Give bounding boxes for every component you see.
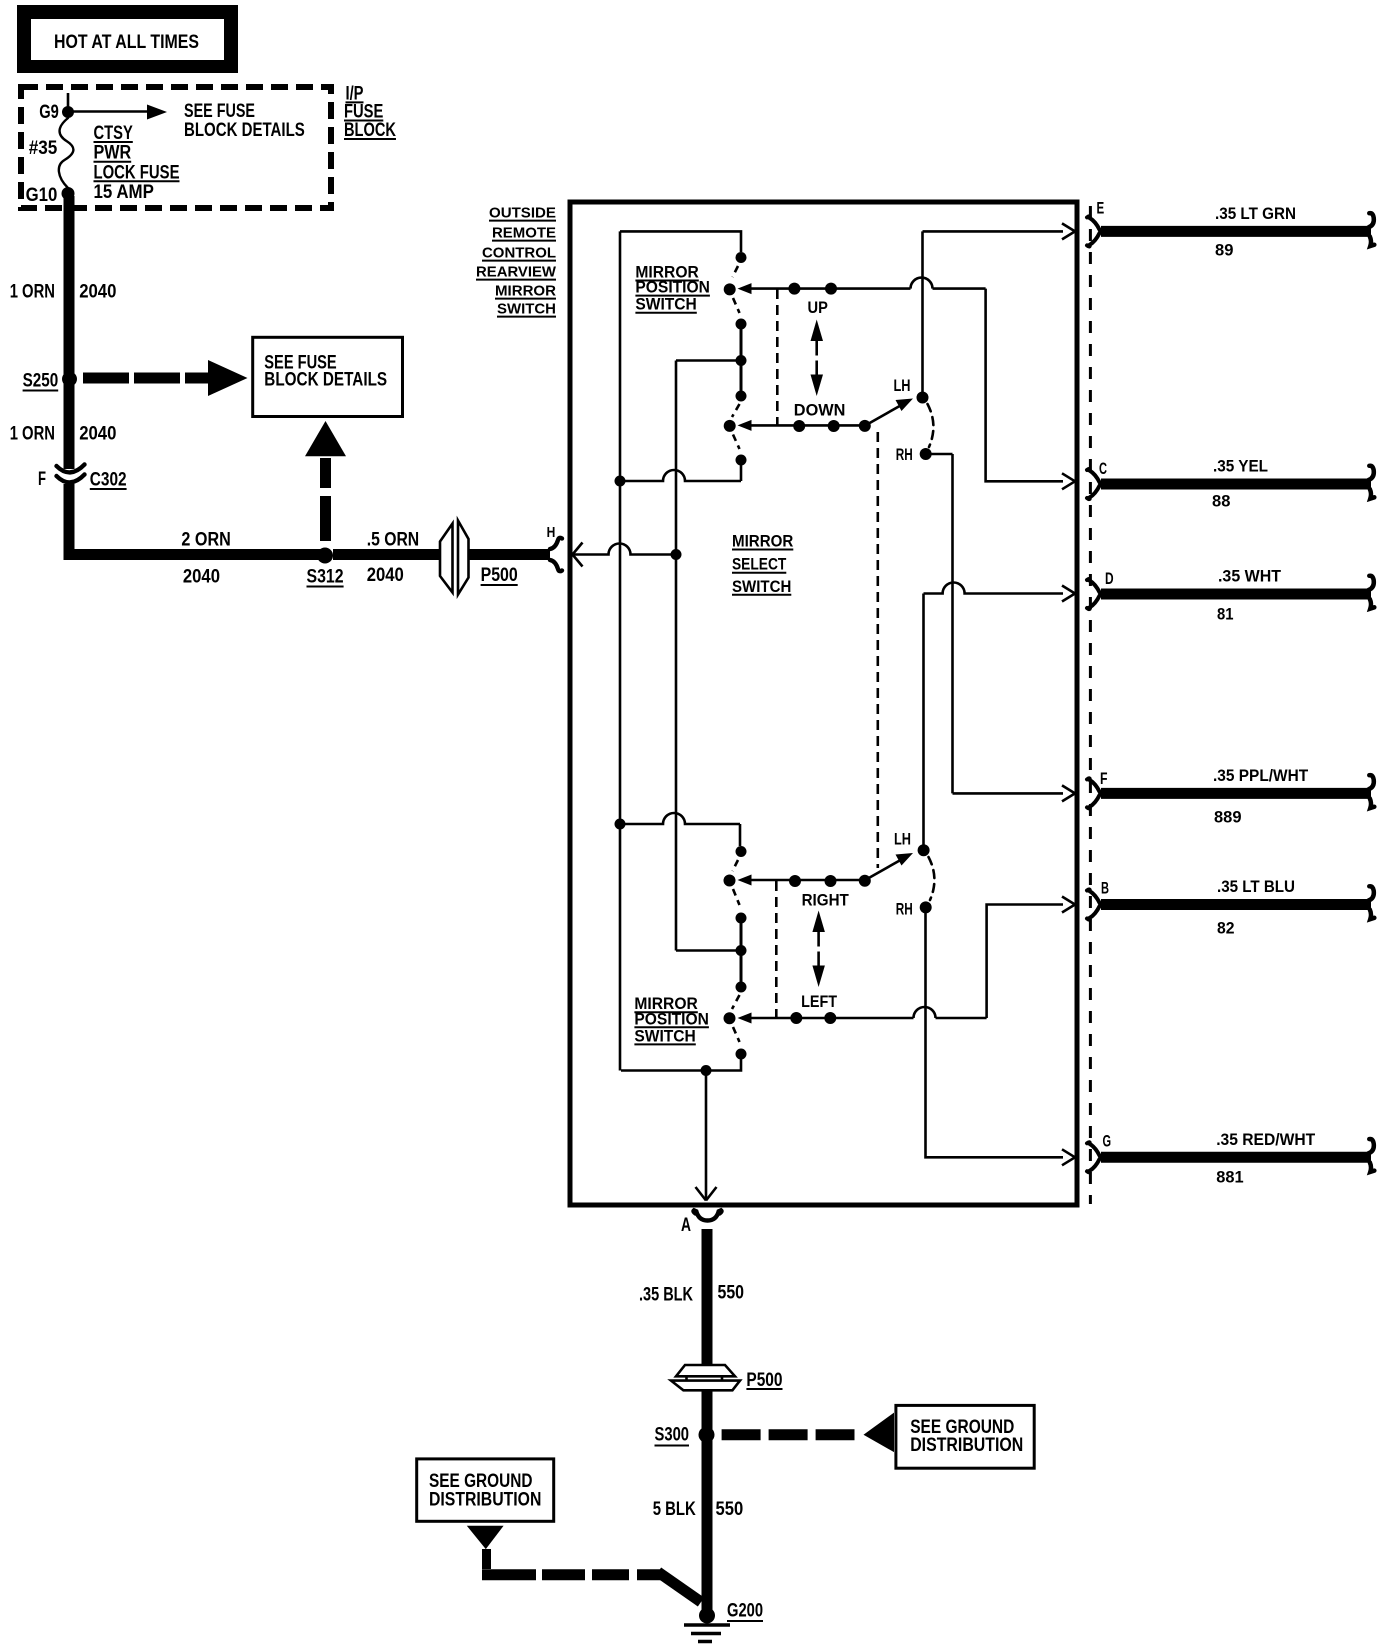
OUTSIDE REMOTE CONTROL REARVIEW MIRROR SWITCH label — [476, 205, 557, 318]
RIGHT row contact dots — [789, 875, 837, 887]
power label box HOT AT ALL TIMES — [17, 5, 238, 73]
svg-text:A: A — [681, 1215, 691, 1236]
svg-text:.35 WHT: .35 WHT — [1218, 567, 1282, 586]
wire 1 ORN 2040 from G10 to S250 — [10, 196, 117, 379]
UP row wire — [752, 278, 986, 289]
svg-text:81: 81 — [1217, 604, 1234, 623]
LEFT row wire — [752, 1007, 987, 1018]
dashed arrow S250 to fuse block details box — [83, 360, 248, 396]
svg-text:.35 YEL: .35 YEL — [1213, 457, 1268, 476]
upper MIRROR POSITION SWITCH label — [635, 263, 710, 314]
svg-text:SEE FUSE: SEE FUSE — [184, 101, 255, 122]
wire ground bus to pin A with arrow — [696, 1071, 717, 1201]
ground G200 — [684, 1600, 763, 1641]
pin D entry arrow — [1062, 586, 1079, 602]
svg-text:550: 550 — [716, 1499, 744, 1520]
fuse #35 CTSY PWR LOCK FUSE 15 AMP — [29, 118, 180, 203]
upper select wiper arm to LH — [867, 399, 913, 425]
up-down motion arrows — [811, 320, 824, 397]
svg-text:S250: S250 — [23, 370, 59, 391]
svg-text:.35 LT GRN: .35 LT GRN — [1215, 204, 1296, 223]
rocker dashed contact upper — [733, 266, 739, 277]
wire lower LH to pin D — [924, 583, 1064, 851]
upper select LH contact dot — [894, 376, 929, 404]
dashed arrow S300 to ground distribution note — [722, 1413, 894, 1453]
I/P fuse block dashed boundary — [21, 87, 331, 208]
svg-text:SWITCH: SWITCH — [634, 1026, 695, 1045]
UP row contact dots — [788, 283, 837, 295]
LEFT wiper pivot dot — [724, 1012, 736, 1024]
feed branch to lower rocker bus — [676, 949, 741, 952]
MIRROR SELECT SWITCH label — [732, 532, 793, 596]
arrow to fuse block details note — [72, 105, 167, 120]
mechanical link lower position switch — [775, 881, 778, 1017]
svg-text:P500: P500 — [746, 1370, 782, 1391]
svg-text:C: C — [1099, 459, 1107, 478]
svg-text:H: H — [547, 524, 556, 541]
svg-text:G: G — [1103, 1132, 1112, 1151]
connector C302 pin F — [38, 465, 127, 491]
svg-text:1 ORN: 1 ORN — [10, 424, 55, 445]
pin C connector half — [1087, 459, 1107, 499]
svg-text:MIRROR: MIRROR — [495, 283, 556, 300]
right-left motion arrows — [812, 911, 825, 988]
lower select pivot dot — [859, 875, 871, 887]
lower select dashed throw arc — [929, 857, 935, 900]
svg-text:2040: 2040 — [79, 424, 116, 445]
svg-text:881: 881 — [1216, 1168, 1243, 1187]
select switch mechanical link — [876, 432, 879, 868]
upper select pivot dot — [859, 420, 871, 432]
dashed arrow S312 up to fuse block details box — [305, 421, 346, 541]
RIGHT wiper arrow — [738, 875, 752, 886]
connector P500 inline — [440, 521, 518, 595]
LEFT row contact dots — [790, 1012, 836, 1024]
wire .35 BLK 550 pin A to P500 — [639, 1229, 744, 1364]
connector P500 pass-through grommet — [671, 1365, 783, 1391]
wire .35 YEL circuit 88 at pin C — [1101, 457, 1374, 511]
wire top link left rail to rocker top — [620, 231, 741, 252]
wire rocker bottom to left rail — [620, 460, 741, 481]
upper select dashed throw arc — [928, 404, 934, 447]
svg-text:.35 PPL/WHT: .35 PPL/WHT — [1213, 766, 1309, 785]
SEE GROUND DISTRIBUTION box left — [417, 1459, 554, 1521]
svg-text:5 BLK: 5 BLK — [653, 1499, 696, 1520]
wire .5 ORN from P500 to switch pin H — [469, 549, 551, 560]
pin G entry arrow — [1062, 1149, 1079, 1165]
LEFT wiper arrow — [738, 1013, 752, 1024]
lower rocker dashed contact above LEFT pivot — [732, 995, 740, 1009]
pin G connector half — [1087, 1132, 1111, 1173]
pin E entry arrow — [1062, 223, 1079, 239]
node G9 — [39, 93, 74, 123]
I/P FUSE BLOCK label — [344, 83, 396, 141]
svg-text:SELECT: SELECT — [732, 555, 787, 574]
pin D connector half — [1087, 569, 1114, 609]
wire P500 to S300 — [702, 1390, 713, 1435]
rocker contact dot bottom — [736, 455, 747, 466]
svg-text:REMOTE: REMOTE — [492, 225, 556, 242]
lower select RH contact dot — [896, 900, 932, 919]
svg-text:889: 889 — [1214, 807, 1242, 826]
DOWN row contact dots — [793, 420, 840, 432]
splice S312 — [307, 548, 344, 588]
svg-text:PWR: PWR — [94, 143, 132, 164]
rocker contact dot top — [736, 252, 747, 263]
svg-text:G10: G10 — [26, 185, 58, 206]
lower MIRROR POSITION SWITCH label — [634, 994, 709, 1045]
wire lower rocker bottom to ground bus — [621, 1054, 741, 1071]
pin F entry arrow — [1062, 785, 1079, 801]
pin B connector half — [1087, 879, 1109, 920]
junction dot on left rail lower — [615, 819, 626, 830]
wire RH to pin F — [932, 454, 1064, 793]
svg-text:SEE GROUND: SEE GROUND — [429, 1471, 533, 1492]
svg-text:BLOCK DETAILS: BLOCK DETAILS — [264, 369, 387, 390]
UP wiper arrow — [738, 283, 752, 294]
DOWN row wire — [752, 424, 865, 427]
svg-text:SWITCH: SWITCH — [497, 301, 556, 318]
RIGHT row wire — [752, 879, 865, 882]
SEE FUSE BLOCK DETAILS box — [253, 337, 403, 416]
wire 1 ORN 2040 from S250 to C302 — [10, 379, 117, 469]
junction dot on left rail upper — [615, 476, 626, 487]
LEFT label — [801, 992, 838, 1011]
rocker mid contact dots and bus — [736, 319, 747, 402]
svg-text:OUTSIDE: OUTSIDE — [489, 205, 556, 222]
svg-text:DISTRIBUTION: DISTRIBUTION — [910, 1435, 1023, 1456]
svg-text:.35 BLK: .35 BLK — [639, 1284, 693, 1305]
wire .35 PPL/WHT circuit 889 at pin F — [1101, 766, 1374, 826]
wire H feed to center rail — [574, 544, 676, 555]
wire .5 ORN 2040 from S312 to P500 — [333, 529, 440, 586]
svg-text:F: F — [1100, 769, 1108, 788]
wire LEFT row to pin B — [987, 905, 1063, 1019]
svg-text:B: B — [1101, 879, 1109, 898]
svg-text:CTSY: CTSY — [94, 123, 134, 144]
svg-text:E: E — [1097, 199, 1105, 218]
wire 5 BLK 550 S300 to G200 — [653, 1435, 744, 1615]
svg-text:LH: LH — [894, 830, 911, 849]
svg-text:2040: 2040 — [79, 281, 116, 302]
lower select wiper arm to LH — [867, 853, 913, 879]
outside remote control rearview mirror switch box — [570, 202, 1077, 1205]
UP label — [808, 298, 828, 317]
rocker dashed contact above DOWN pivot — [732, 404, 740, 417]
DOWN wiper pivot dot — [724, 420, 736, 432]
connector face dashed line — [1089, 206, 1092, 1204]
svg-text:2040: 2040 — [183, 566, 220, 587]
lower rocker contact dot bottom — [736, 1049, 747, 1060]
svg-text:89: 89 — [1215, 240, 1233, 259]
wire .35 WHT circuit 81 at pin D — [1101, 567, 1374, 624]
pin C entry arrow — [1062, 473, 1079, 489]
lower rocker contact dot top — [736, 846, 747, 857]
wire lower RH to pin G — [926, 913, 1064, 1157]
svg-text:BLOCK: BLOCK — [344, 120, 396, 141]
lower rocker dashed contact upper — [733, 860, 739, 871]
svg-text:.5 ORN: .5 ORN — [367, 529, 420, 550]
svg-text:HOT AT ALL TIMES: HOT AT ALL TIMES — [54, 32, 199, 53]
svg-text:SWITCH: SWITCH — [635, 295, 696, 314]
wire 2 ORN 2040 from C302 to S312 — [64, 484, 326, 587]
svg-text:G200: G200 — [727, 1600, 763, 1621]
arrow from left ground distribution box — [467, 1526, 504, 1549]
svg-text:LEFT: LEFT — [801, 992, 838, 1011]
DOWN wiper arrow — [738, 420, 752, 431]
svg-text:BLOCK DETAILS: BLOCK DETAILS — [184, 120, 305, 141]
svg-text:.35 RED/WHT: .35 RED/WHT — [1216, 1130, 1316, 1149]
svg-text:S300: S300 — [655, 1424, 690, 1445]
svg-text:SWITCH: SWITCH — [732, 577, 791, 596]
UP wiper pivot dot — [724, 283, 736, 295]
pin A connector half — [681, 1210, 722, 1236]
svg-text:2 ORN: 2 ORN — [181, 529, 230, 550]
splice S300 — [655, 1424, 715, 1445]
svg-text:#35: #35 — [29, 138, 58, 159]
SEE GROUND DISTRIBUTION box right — [896, 1405, 1034, 1468]
svg-text:P500: P500 — [481, 565, 518, 586]
svg-text:F: F — [38, 469, 46, 490]
svg-text:15 AMP: 15 AMP — [94, 182, 155, 203]
left return rail vertical — [619, 231, 622, 1070]
DOWN label — [794, 401, 846, 420]
svg-text:RH: RH — [896, 900, 913, 919]
svg-text:G9: G9 — [39, 102, 59, 123]
svg-text:REARVIEW: REARVIEW — [476, 264, 557, 281]
center feed rail vertical — [671, 361, 682, 951]
feed branch to rocker bus — [676, 359, 741, 362]
node G10 — [26, 185, 75, 206]
ground bus junction dot — [701, 1065, 712, 1076]
svg-text:DOWN: DOWN — [794, 401, 846, 420]
dashed ground wire to G200 — [482, 1549, 701, 1602]
svg-text:LOCK FUSE: LOCK FUSE — [94, 162, 180, 183]
rocker dashed contact to lower dot — [733, 298, 740, 313]
splice S250 — [23, 370, 77, 391]
svg-text:RIGHT: RIGHT — [802, 891, 850, 910]
svg-text:S312: S312 — [307, 566, 344, 587]
svg-text:2040: 2040 — [367, 565, 404, 586]
wire UP row to pin C — [986, 289, 1063, 482]
pin E connector half — [1087, 199, 1104, 247]
svg-text:MIRROR: MIRROR — [732, 532, 793, 551]
svg-text:.35 LT BLU: .35 LT BLU — [1217, 877, 1295, 896]
svg-text:C302: C302 — [90, 469, 127, 490]
pin H entry arrow into switch — [573, 543, 583, 567]
svg-text:D: D — [1105, 569, 1114, 588]
lower rocker dashed contact to mid — [733, 889, 740, 905]
wire LH to pin E — [923, 231, 1064, 397]
lower select LH contact dot — [894, 830, 930, 857]
mechanical link upper position switch — [776, 289, 779, 425]
pin H connector half — [547, 524, 562, 571]
RIGHT label — [802, 891, 850, 910]
svg-text:88: 88 — [1212, 491, 1230, 510]
svg-text:UP: UP — [808, 298, 828, 317]
rocker dashed contact below DOWN pivot — [733, 435, 740, 450]
svg-text:LH: LH — [894, 376, 911, 395]
lower rocker mid contact dots and bus — [736, 913, 747, 993]
lower rocker dashed contact below LEFT pivot — [733, 1027, 740, 1042]
svg-text:RH: RH — [896, 445, 913, 464]
wire left rail to lower rocker top — [620, 813, 740, 846]
svg-text:550: 550 — [718, 1282, 745, 1303]
SEE FUSE BLOCK DETAILS note text — [184, 101, 305, 141]
svg-text:DISTRIBUTION: DISTRIBUTION — [429, 1490, 541, 1511]
wire .35 LT BLU circuit 82 at pin B — [1101, 877, 1374, 937]
upper select RH contact dot — [896, 445, 932, 464]
pin F connector half — [1087, 769, 1108, 809]
svg-text:CONTROL: CONTROL — [482, 245, 556, 262]
svg-text:1 ORN: 1 ORN — [10, 281, 55, 302]
svg-text:82: 82 — [1217, 918, 1235, 937]
wire .35 LT GRN circuit 89 at pin E — [1101, 204, 1374, 259]
RIGHT wiper pivot dot — [724, 875, 736, 887]
pin B entry arrow — [1062, 897, 1079, 913]
wire .35 RED/WHT circuit 881 at pin G — [1101, 1130, 1374, 1187]
